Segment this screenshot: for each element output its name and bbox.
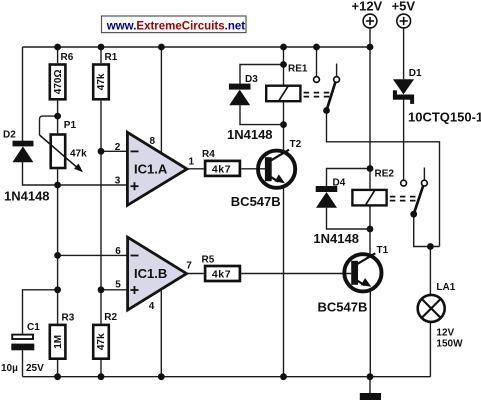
wire ground bus bottom bbox=[23, 376, 431, 378]
svg-text:10CTQ150-1: 10CTQ150-1 bbox=[408, 110, 481, 125]
ground bbox=[360, 393, 381, 400]
wire R4 to T2 base bbox=[241, 168, 265, 170]
svg-text:6: 6 bbox=[115, 246, 121, 257]
svg-text:BC547B: BC547B bbox=[318, 300, 368, 315]
svg-text:IC1.A: IC1.A bbox=[134, 161, 168, 176]
transistor T2 bbox=[231, 139, 302, 209]
svg-text:RE1: RE1 bbox=[288, 64, 308, 75]
node D3 bottom bbox=[280, 121, 287, 128]
wire D1 to RE2 switch contact bbox=[403, 100, 405, 181]
svg-text:D4: D4 bbox=[333, 178, 346, 189]
resistor R3 bbox=[50, 313, 75, 359]
wire R3 column pin6/C1 taps bbox=[57, 185, 59, 324]
wire pin8 bbox=[160, 47, 162, 153]
svg-text:150W: 150W bbox=[436, 339, 463, 350]
wire P1 wiper loop bbox=[40, 116, 58, 135]
node RE2 top bbox=[367, 165, 374, 172]
wire +12V rail down to RE2 bbox=[369, 28, 371, 189]
svg-text:+12V: +12V bbox=[352, 0, 383, 14]
node D3 top bbox=[280, 61, 287, 68]
wire RE1 switch left contact lead bbox=[316, 47, 318, 76]
wire R2 bottom lead bbox=[100, 360, 102, 377]
resistor R2 bbox=[93, 312, 117, 358]
svg-text:R6: R6 bbox=[61, 52, 74, 63]
svg-text:4k7: 4k7 bbox=[212, 163, 231, 175]
svg-text:25V: 25V bbox=[26, 363, 44, 374]
svg-text:12V: 12V bbox=[436, 328, 454, 339]
svg-text:R5: R5 bbox=[202, 255, 215, 266]
relay RE1 switch bbox=[314, 77, 340, 111]
svg-text:R1: R1 bbox=[105, 52, 118, 63]
svg-text:www.ExtremeCircuits.net: www.ExtremeCircuits.net bbox=[106, 20, 245, 32]
svg-text:2: 2 bbox=[115, 142, 121, 153]
relay coil RE1 bbox=[266, 64, 308, 102]
diode D3 bbox=[227, 74, 273, 142]
svg-text:LA1: LA1 bbox=[436, 282, 455, 293]
wire pin4 bbox=[160, 289, 162, 376]
svg-text:4k7: 4k7 bbox=[212, 268, 231, 280]
svg-text:1: 1 bbox=[189, 157, 195, 168]
svg-text:1N4148: 1N4148 bbox=[4, 188, 50, 203]
svg-text:1N4148: 1N4148 bbox=[313, 231, 359, 246]
svg-text:47k: 47k bbox=[70, 149, 87, 160]
wire RE2 pivot route to lamp node bbox=[414, 214, 440, 246]
svg-text:3: 3 bbox=[115, 175, 121, 186]
svg-text:470Ω: 470Ω bbox=[53, 70, 64, 95]
wire RE1 top lead bbox=[283, 47, 285, 85]
wire R6 top lead bbox=[57, 47, 59, 63]
wire +5V rail to D1 bbox=[403, 28, 405, 79]
wire RE1 switch route to lamp node bbox=[327, 111, 440, 247]
wire D2 bottom to pin3 line bbox=[23, 162, 128, 185]
op-amp IC1.B bbox=[115, 237, 192, 312]
wire C1 top to node bbox=[23, 290, 58, 334]
svg-text:RE2: RE2 bbox=[375, 169, 395, 180]
svg-text:4: 4 bbox=[149, 301, 155, 312]
svg-text:C1: C1 bbox=[27, 322, 40, 333]
node pin6 bbox=[54, 252, 61, 259]
wire pin2 bbox=[101, 150, 127, 152]
wire R1 top lead bbox=[100, 47, 102, 63]
svg-text:T1: T1 bbox=[377, 245, 389, 256]
node +12V bus bbox=[367, 44, 374, 51]
transistor T1 bbox=[318, 245, 389, 315]
node RE1 pivot bbox=[323, 107, 330, 114]
wire D4 bottom branch bbox=[327, 208, 371, 229]
node RE2 pivot bbox=[410, 211, 417, 218]
diode D2 bbox=[3, 130, 50, 204]
svg-text:5: 5 bbox=[115, 280, 121, 291]
svg-text:47k: 47k bbox=[96, 333, 107, 350]
resistor R1 bbox=[93, 52, 118, 99]
node R6 top bbox=[54, 44, 61, 51]
svg-text:R2: R2 bbox=[104, 312, 117, 323]
svg-text:IC1.B: IC1.B bbox=[134, 266, 167, 281]
wire lamp top lead bbox=[429, 247, 431, 295]
node R2 ground bbox=[98, 373, 105, 380]
wire IC1.A output to R4 bbox=[187, 168, 204, 170]
wire R1 bottom through pin2 and pin5 taps bbox=[100, 101, 102, 324]
svg-text:T2: T2 bbox=[290, 139, 302, 150]
node pin3 bbox=[54, 182, 61, 189]
node pin4 ground bbox=[158, 373, 165, 380]
svg-text:47k: 47k bbox=[96, 73, 107, 90]
svg-text:R4: R4 bbox=[202, 149, 215, 160]
node pin2 bbox=[98, 148, 105, 155]
diode D1 schottky bbox=[393, 68, 481, 125]
node pin8 top bbox=[158, 44, 165, 51]
wire P1 bottom lead bbox=[57, 169, 59, 185]
wire D3 top branch bbox=[240, 65, 284, 84]
node RE1 top bbox=[280, 44, 287, 51]
wire RE1 switch stub bbox=[336, 64, 338, 77]
svg-text:P1: P1 bbox=[64, 120, 77, 131]
svg-text:D1: D1 bbox=[409, 68, 422, 79]
supply +5V terminal bbox=[392, 0, 416, 28]
banner www.ExtremeCircuits.net bbox=[102, 16, 247, 33]
node switch RE1 top bbox=[313, 44, 320, 51]
wire T1 emitter to ground bbox=[369, 291, 371, 377]
potentiometer P1 bbox=[40, 120, 88, 173]
relay RE2 dashed link bbox=[390, 197, 417, 201]
diode D4 bbox=[313, 178, 359, 247]
wire RE2 bottom to junction bbox=[369, 207, 371, 255]
resistor R6 bbox=[50, 52, 74, 99]
wire pin6 bbox=[58, 254, 128, 256]
resistor R5 bbox=[202, 255, 240, 282]
wire T2 emitter to ground bbox=[283, 188, 285, 377]
node R1 top bbox=[98, 44, 105, 51]
node lamp junction bbox=[427, 243, 434, 250]
svg-text:D2: D2 bbox=[3, 130, 16, 141]
node P1 wiper bbox=[54, 113, 61, 120]
wire pin5 bbox=[101, 289, 128, 291]
capacitor C1 bbox=[1, 322, 44, 374]
wire RE2 switch stub bbox=[423, 168, 425, 181]
lamp LA1 bbox=[418, 282, 463, 350]
node R3 ground bbox=[54, 373, 61, 380]
wire C1 bottom lead bbox=[22, 350, 24, 376]
svg-text:1N4148: 1N4148 bbox=[227, 127, 273, 142]
svg-text:BC547B: BC547B bbox=[231, 194, 281, 209]
wire lamp bottom lead bbox=[429, 322, 431, 377]
wire R5 to T1 base bbox=[241, 273, 351, 275]
relay RE2 switch bbox=[401, 180, 428, 214]
svg-text:8: 8 bbox=[150, 136, 156, 147]
wire D4 top branch bbox=[327, 169, 371, 187]
relay RE1 dashed link bbox=[304, 93, 331, 97]
node C1 top bbox=[54, 286, 61, 293]
wire IC1.B output to R5 bbox=[187, 273, 204, 275]
wire D3 bottom branch bbox=[240, 105, 284, 124]
svg-text:R3: R3 bbox=[62, 313, 75, 324]
wire top +12V bus bbox=[23, 46, 371, 48]
wire RE1 bottom to T2 collector bbox=[283, 102, 285, 151]
wire ground stub bbox=[369, 377, 371, 393]
svg-text:D3: D3 bbox=[245, 74, 258, 85]
wire R3 bottom lead bbox=[57, 360, 59, 377]
svg-text:7: 7 bbox=[186, 261, 192, 272]
relay coil RE2 bbox=[352, 169, 394, 206]
op-amp IC1.A bbox=[115, 132, 195, 205]
svg-text:10µ: 10µ bbox=[1, 363, 18, 374]
wire left column to D2 bbox=[22, 47, 24, 141]
resistor R4 bbox=[202, 149, 240, 176]
node RE2 bottom bbox=[367, 226, 374, 233]
svg-text:1M: 1M bbox=[53, 335, 64, 349]
node T2 emitter ground bbox=[280, 373, 287, 380]
wire R6 bottom to P1 bbox=[57, 101, 59, 134]
node pin5 bbox=[98, 286, 105, 293]
svg-text:+5V: +5V bbox=[392, 0, 416, 14]
node T1 emitter ground bbox=[367, 373, 374, 380]
supply +12V terminal bbox=[352, 0, 383, 28]
